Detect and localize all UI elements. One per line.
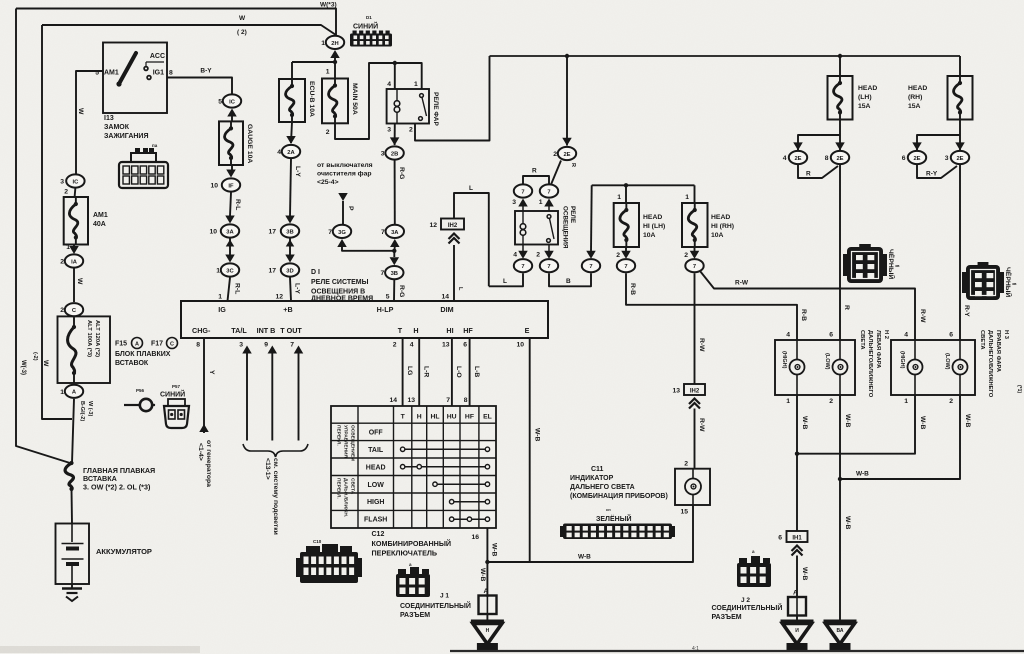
svg-text:1: 1 — [66, 244, 70, 251]
svg-text:B-Y: B-Y — [200, 68, 212, 75]
relay RELE OSVESHCHENIYA box — [515, 211, 558, 245]
svg-text:R-Y: R-Y — [963, 305, 970, 317]
svg-text:C11: C11 — [591, 466, 604, 473]
svg-text:W-B: W-B — [578, 554, 591, 561]
svg-text:2: 2 — [393, 342, 397, 349]
svg-text:HEAD: HEAD — [711, 214, 730, 221]
svg-text:H 3: H 3 — [1003, 330, 1009, 340]
svg-text:F17: F17 — [151, 341, 163, 348]
svg-text:13: 13 — [672, 388, 680, 395]
svg-text:P: P — [347, 206, 354, 211]
svg-text:СИНИЙ: СИНИЙ — [353, 22, 378, 31]
connector IA pin 2 — [65, 254, 83, 267]
svg-text:R-G: R-G — [398, 285, 405, 297]
svg-text:R-W: R-W — [919, 309, 926, 323]
svg-text:ЗАЖИГАНИЯ: ЗАЖИГАНИЯ — [104, 133, 149, 140]
svg-text:от генератора: от генератора — [205, 440, 212, 487]
wire L-Y to DRL relay pin 12 +B — [290, 278, 291, 302]
svg-text:2: 2 — [829, 398, 833, 405]
svg-text:W-B: W-B — [844, 516, 851, 530]
svg-text:INT B: INT B — [257, 326, 276, 335]
arrows into 2E pair LH — [793, 142, 803, 150]
wire relay pin3 to 2B — [394, 124, 396, 146]
svg-text:I13: I13 — [104, 115, 114, 122]
svg-text:12: 12 — [429, 222, 437, 229]
svg-text:ВСТАВОК: ВСТАВОК — [115, 360, 149, 367]
svg-text:IC: IC — [72, 179, 79, 185]
wire W-B from C11 pin 15 to ground bus — [487, 505, 693, 562]
svg-text:ПЕРЕКЛЮЧАТЕЛЬ: ПЕРЕКЛЮЧАТЕЛЬ — [372, 549, 438, 558]
svg-text:СИНИЙ: СИНИЙ — [160, 390, 185, 399]
svg-text:2E: 2E — [913, 156, 920, 162]
connector 7 (relay pin 4, L wire) — [514, 259, 532, 272]
ground right 2 — [824, 620, 857, 623]
arrow into 3D — [285, 255, 295, 263]
brace under wires — [243, 444, 308, 457]
svg-text:L-Y: L-Y — [294, 283, 301, 294]
svg-text:<25-4>: <25-4> — [317, 179, 339, 186]
svg-text:2E: 2E — [956, 156, 963, 162]
connector 3A pin 7 (H-LP) — [386, 225, 404, 238]
svg-text:9: 9 — [264, 342, 268, 349]
connector IH2 pin 12 — [441, 219, 464, 230]
svg-text:W-B: W-B — [491, 543, 498, 557]
svg-text:2: 2 — [684, 461, 688, 468]
svg-text:15A: 15A — [908, 103, 921, 110]
svg-text:ЗАМОК: ЗАМОК — [104, 124, 130, 131]
headlamp H2 left (LEVAYA FARA) — [775, 340, 855, 395]
svg-text:7: 7 — [589, 264, 592, 270]
svg-text:3B: 3B — [391, 271, 398, 277]
svg-text:6: 6 — [949, 332, 953, 339]
wire B relay output — [549, 273, 591, 286]
svg-text:7: 7 — [693, 264, 696, 270]
svg-text:БЛОК ПЛАВКИХ: БЛОК ПЛАВКИХ — [115, 351, 171, 358]
svg-text:LOW: LOW — [368, 482, 385, 489]
svg-text:сн: сн — [606, 507, 611, 512]
svg-text:2: 2 — [536, 252, 540, 259]
connector 2E pin 2 — [558, 147, 576, 160]
svg-text:(LH): (LH) — [858, 94, 872, 101]
svg-text:1: 1 — [218, 294, 222, 301]
DRL relay D1 main box — [181, 301, 548, 338]
connector 2E pin 6 — [908, 151, 926, 164]
svg-text:2: 2 — [326, 129, 330, 136]
svg-text:16: 16 — [471, 534, 479, 541]
wire 3A to 3C — [229, 239, 231, 256]
arrow into 2B — [390, 137, 400, 145]
svg-text:2: 2 — [64, 189, 68, 196]
svg-text:3A: 3A — [391, 230, 399, 236]
relay RELE FAR — [387, 89, 429, 124]
svg-text:1: 1 — [216, 268, 220, 275]
svg-text:4: 4 — [410, 342, 414, 349]
svg-text:(HIGH): (HIGH) — [781, 351, 787, 369]
arrow into 3C — [225, 255, 235, 263]
ground left — [486, 614, 488, 620]
svg-text:4: 4 — [786, 332, 790, 339]
svg-text:2B: 2B — [391, 151, 398, 157]
svg-text:7: 7 — [547, 264, 550, 270]
svg-text:Р56: Р56 — [136, 388, 145, 393]
connector 2B pin 3 — [385, 146, 403, 159]
svg-text:КОМБИНИРОВАННЫЙ: КОМБИНИРОВАННЫЙ — [372, 539, 452, 548]
svg-text:HEAD: HEAD — [643, 214, 662, 221]
svg-text:R: R — [843, 305, 850, 310]
svg-text:H 2: H 2 — [883, 330, 889, 339]
svg-text:3: 3 — [381, 151, 385, 158]
svg-text:IH2: IH2 — [690, 389, 700, 395]
wire R-G to DRL pin 5 H-LP — [393, 280, 395, 301]
svg-text:L: L — [469, 185, 473, 192]
svg-text:40A: 40A — [93, 221, 106, 228]
svg-text:1: 1 — [414, 81, 418, 88]
svg-text:зв: зв — [1012, 281, 1017, 286]
fuse ECU-B 10A — [279, 79, 305, 122]
svg-text:10A: 10A — [711, 232, 724, 239]
svg-text:3D: 3D — [286, 268, 293, 274]
svg-text:L-Y: L-Y — [294, 166, 301, 177]
svg-text:W-B: W-B — [919, 416, 926, 430]
svg-text:14: 14 — [389, 397, 397, 404]
svg-text:7: 7 — [521, 264, 524, 270]
svg-text:L-B: L-B — [473, 366, 480, 377]
svg-text:15A: 15A — [858, 103, 871, 110]
svg-text:HI: HI — [446, 326, 453, 335]
svg-text:W-B: W-B — [964, 414, 971, 428]
wire R-L to DRL relay pin 1 IG — [228, 278, 231, 302]
svg-text:2E: 2E — [563, 152, 570, 158]
svg-text:FLASH: FLASH — [364, 517, 387, 524]
connector 7 (relay pin 1) — [540, 184, 558, 197]
svg-text:3: 3 — [945, 155, 949, 162]
svg-text:АККУМУЛЯТОР: АККУМУЛЯТОР — [96, 547, 152, 556]
wire W-B from H3 pin2 — [840, 395, 960, 479]
svg-text:DIM: DIM — [440, 305, 453, 314]
svg-text:W: W — [77, 108, 84, 115]
svg-text:2E: 2E — [836, 156, 843, 162]
arrow into 3G from below — [337, 239, 347, 247]
svg-text:13: 13 — [442, 342, 450, 349]
svg-text:W-B: W-B — [801, 416, 808, 430]
svg-text:IG: IG — [218, 305, 226, 314]
black connector (CHYORNIY) left — [847, 247, 883, 283]
svg-text:СВЕТА: СВЕТА — [350, 478, 356, 495]
connector 3G pin 7 — [333, 225, 351, 238]
fuse HEAD HI (LH) 10A — [625, 185, 627, 203]
arrow into 2A — [286, 136, 296, 144]
svg-text:3G: 3G — [338, 230, 346, 236]
wire from rail down to 2E — [566, 56, 568, 146]
svg-text:(КОМБИНАЦИЯ ПРИБОРОВ): (КОМБИНАЦИЯ ПРИБОРОВ) — [570, 493, 668, 500]
connector 3B pin 17 — [281, 224, 299, 237]
svg-text:R-L: R-L — [234, 199, 241, 210]
svg-text:W-B: W-B — [856, 471, 869, 478]
connector 2H pin 1 — [326, 36, 344, 49]
svg-text:R: R — [570, 163, 576, 167]
svg-text:ДАЛЬНЕГО СВЕТА: ДАЛЬНЕГО СВЕТА — [570, 484, 635, 491]
svg-text:(LOW): (LOW) — [824, 353, 830, 370]
svg-text:H: H — [413, 326, 418, 335]
svg-text:( 2): ( 2) — [237, 29, 247, 36]
wire L relay coil return — [489, 273, 523, 286]
svg-text:R-B: R-B — [629, 283, 636, 295]
svg-text:17: 17 — [268, 229, 276, 236]
svg-text:HI (RH): HI (RH) — [711, 223, 734, 230]
svg-text:10: 10 — [516, 342, 524, 349]
svg-text:ПЕРЕКЛ.: ПЕРЕКЛ. — [336, 425, 342, 446]
svg-text:W(-3): W(-3) — [20, 360, 26, 375]
svg-text:A: A — [793, 590, 798, 597]
main fusible link GLAVNAYA PLAVKAYA VSTAVKA — [65, 463, 73, 489]
svg-text:7: 7 — [521, 189, 524, 195]
connector C pin 2 — [65, 303, 83, 316]
svg-text:AM1: AM1 — [93, 212, 108, 219]
svg-text:зв: зв — [895, 263, 900, 268]
svg-text:3. OW (*2) 2. OL (*3): 3. OW (*2) 2. OL (*3) — [83, 483, 151, 492]
svg-text:2A: 2A — [287, 150, 295, 156]
svg-text:И: И — [795, 628, 799, 634]
wire W-B from H3 pin1 — [797, 395, 915, 454]
connector 2E pin 8 — [831, 151, 849, 164]
wire L from IH2 to lighting relay coil — [454, 193, 489, 286]
svg-text:R-Y: R-Y — [926, 171, 938, 178]
svg-text:7: 7 — [328, 229, 332, 236]
svg-text:1: 1 — [321, 40, 325, 47]
svg-text:R-W: R-W — [698, 338, 705, 352]
svg-text:8: 8 — [169, 70, 173, 77]
svg-text:10: 10 — [210, 183, 218, 190]
diagonal wire 2E to relay pin 1 connector — [551, 161, 561, 185]
svg-text:(*1): (*1) — [1016, 385, 1022, 393]
svg-text:J 1: J 1 — [440, 593, 449, 600]
svg-text:РАЗЪЕМ: РАЗЪЕМ — [400, 612, 430, 619]
fuse GAUGE 10A — [219, 121, 243, 165]
svg-text:HIGH: HIGH — [367, 499, 385, 506]
fuse AM1 40A — [64, 197, 88, 245]
svg-text:СВЕТА: СВЕТА — [859, 330, 865, 350]
svg-text:1: 1 — [685, 194, 689, 201]
svg-text:РЕЛЕ СИСТЕМЫ: РЕЛЕ СИСТЕМЫ — [311, 279, 369, 286]
svg-text:3: 3 — [512, 199, 516, 206]
svg-text:СОЕДИНИТЕЛЬНЫЙ: СОЕДИНИТЕЛЬНЫЙ — [400, 601, 471, 610]
svg-text:ЛЕВАЯ ФАРА: ЛЕВАЯ ФАРА — [875, 330, 881, 369]
headlamp H3 right (PRAVAYA FARA) — [891, 340, 975, 395]
svg-text:IF: IF — [228, 183, 234, 189]
svg-text:CHG-: CHG- — [192, 326, 211, 335]
svg-text:от выключателя: от выключателя — [317, 162, 373, 169]
svg-text:10: 10 — [209, 229, 217, 236]
wire relay pin2 up to main rail — [415, 56, 490, 141]
wire W (2), second feed wire — [42, 25, 336, 35]
svg-text:УПРАВЛЕНИЯ: УПРАВЛЕНИЯ — [343, 425, 349, 458]
svg-text:17: 17 — [268, 268, 276, 275]
R merge of 2E variants — [798, 165, 838, 178]
svg-text:ДАЛЬН./БЛИЖН.: ДАЛЬН./БЛИЖН. — [343, 478, 349, 517]
svg-text:7: 7 — [624, 264, 627, 270]
svg-text:7: 7 — [446, 397, 450, 404]
svg-text:3: 3 — [239, 342, 243, 349]
svg-text:L-O: L-O — [455, 366, 462, 378]
svg-text:(-2): (-2) — [32, 352, 38, 361]
svg-text:R: R — [532, 168, 537, 175]
svg-text:HL: HL — [430, 414, 439, 421]
svg-text:AM1: AM1 — [104, 70, 119, 77]
svg-text:W-B: W-B — [844, 414, 851, 428]
connector 2E pin 4 — [789, 151, 807, 164]
svg-text:A: A — [484, 588, 489, 595]
rail feeding HEAD HI fuses — [592, 184, 695, 186]
svg-text:3: 3 — [60, 179, 64, 186]
svg-text:6: 6 — [829, 332, 833, 339]
svg-text:R-B: R-B — [800, 309, 807, 321]
svg-text:РЕЛЕ ФАР: РЕЛЕ ФАР — [432, 92, 439, 126]
ground right 1 — [796, 616, 798, 621]
svg-text:5: 5 — [218, 99, 222, 106]
svg-text:B-GI(-2): B-GI(-2) — [79, 401, 85, 421]
svg-text:очистителя фар: очистителя фар — [317, 171, 372, 178]
svg-text:(LOW): (LOW) — [944, 353, 950, 370]
connector 7 (relay pin 2, B wire) — [540, 259, 558, 272]
svg-text:3: 3 — [387, 127, 391, 134]
wire R-B to left high beam — [626, 273, 797, 340]
svg-text:4: 4 — [783, 155, 787, 162]
svg-text:6: 6 — [463, 342, 467, 349]
svg-text:8: 8 — [196, 342, 200, 349]
connector A pin 1 — [65, 385, 83, 398]
svg-text:D I: D I — [311, 269, 320, 276]
svg-text:OFF: OFF — [369, 429, 384, 436]
svg-text:1: 1 — [786, 398, 790, 405]
svg-text:3A: 3A — [226, 229, 234, 235]
wire R-W to right high beam — [700, 271, 915, 340]
svg-text:R-W: R-W — [698, 418, 705, 432]
svg-text:W-B: W-B — [479, 568, 486, 582]
svg-text:R-W: R-W — [735, 280, 749, 287]
R-Y merge of 2E variants — [917, 165, 957, 178]
svg-text:ИНДИКАТОР: ИНДИКАТОР — [570, 475, 614, 482]
svg-text:2: 2 — [949, 398, 953, 405]
svg-text:14: 14 — [441, 294, 449, 301]
svg-text:D1: D1 — [366, 15, 372, 20]
svg-text:13: 13 — [407, 397, 415, 404]
svg-text:7: 7 — [381, 270, 385, 277]
svg-text:2: 2 — [616, 252, 620, 259]
svg-text:1: 1 — [617, 194, 621, 201]
connector icon of ignition switch I13 — [119, 148, 168, 188]
svg-text:W (-3): W (-3) — [87, 401, 93, 416]
connector 3D pin 17 — [281, 263, 299, 276]
svg-text:ЗЕЛЁНЫЙ: ЗЕЛЁНЫЙ — [596, 514, 632, 523]
svg-text:H-LP: H-LP — [377, 305, 394, 314]
svg-text:ECU-B 10A: ECU-B 10A — [308, 81, 315, 117]
svg-text:ДАЛЬНЕГО/БЛИЖНЕГО: ДАЛЬНЕГО/БЛИЖНЕГО — [867, 330, 873, 398]
svg-text:IC: IC — [229, 99, 236, 105]
svg-text:4: 4 — [387, 81, 391, 88]
svg-text:B: B — [566, 278, 571, 285]
svg-text:ACC: ACC — [150, 53, 165, 60]
W-B ground bus junction — [485, 560, 489, 564]
svg-text:R: R — [806, 171, 811, 178]
svg-text:IH1: IH1 — [792, 536, 802, 542]
svg-text:С10: С10 — [313, 539, 322, 544]
svg-text:12: 12 — [275, 294, 283, 301]
arrow into 3A from below — [390, 239, 400, 247]
svg-text:2: 2 — [684, 252, 688, 259]
ignition switch I13 (ZAMOK ZAZHIGANIYA) — [103, 43, 167, 114]
svg-text:4: 4 — [904, 332, 908, 339]
svg-text:ОСВЕЩЕНИЯ В: ОСВЕЩЕНИЯ В — [311, 289, 365, 296]
wire R-W to high beam indicator via IH2 — [694, 273, 696, 384]
fuse HEAD HI (RH) 10A — [694, 185, 696, 203]
svg-text:J 2: J 2 — [741, 597, 750, 604]
svg-text:3C: 3C — [226, 268, 234, 274]
feed branch to ECU-B fuse — [292, 61, 335, 63]
wire down from A to main fusible link — [72, 399, 74, 463]
svg-text:ПРАВАЯ ФАРА: ПРАВАЯ ФАРА — [995, 330, 1001, 373]
svg-text:5: 5 — [386, 294, 390, 301]
svg-text:+B: +B — [283, 305, 292, 314]
svg-text:СВЕТА: СВЕТА — [979, 330, 985, 350]
svg-text:TA/L: TA/L — [231, 326, 247, 335]
svg-text:6: 6 — [778, 535, 782, 542]
svg-text:4: 4 — [513, 252, 517, 259]
svg-text:MAIN 50A: MAIN 50A — [351, 83, 358, 115]
connector IH1 pin 6 — [787, 531, 808, 542]
svg-text:IA: IA — [71, 259, 78, 265]
svg-text:Р57: Р57 — [172, 384, 181, 389]
svg-text:T OUT: T OUT — [280, 326, 302, 335]
connector 2A pin 4 — [282, 145, 300, 158]
svg-text:7: 7 — [381, 229, 385, 236]
wire from ignition AM1 pin 5 to IC — [76, 71, 103, 174]
svg-text:R-G: R-G — [398, 167, 405, 179]
svg-text:ВА: ВА — [837, 628, 844, 634]
svg-text:2H: 2H — [331, 41, 338, 47]
svg-text:GAUGE 10A: GAUGE 10A — [246, 124, 253, 163]
svg-text:па: па — [152, 143, 158, 148]
svg-text:1: 1 — [539, 199, 543, 206]
svg-text:1: 1 — [60, 389, 64, 396]
svg-text:HEAD: HEAD — [366, 464, 386, 471]
svg-text:<13-1>: <13-1> — [264, 458, 271, 480]
arrow into 7 below LH HI fuse — [625, 247, 627, 252]
arrow into 3A — [225, 216, 235, 224]
svg-text:HI (LH): HI (LH) — [643, 223, 665, 230]
fuse HEAD (LH) 15A — [839, 56, 841, 76]
svg-text:H: H — [417, 414, 422, 421]
svg-text:HF: HF — [465, 414, 474, 421]
svg-text:R-L: R-L — [234, 283, 241, 294]
arrow into IF — [226, 170, 236, 178]
connector 3A pin 10 — [221, 224, 239, 237]
svg-text:W(*3): W(*3) — [320, 2, 337, 9]
svg-text:8: 8 — [464, 397, 468, 404]
black connector (CHYORNIY) right — [966, 265, 1000, 300]
svg-text:IG1: IG1 — [153, 70, 164, 77]
battery ground — [71, 584, 73, 588]
svg-text:7: 7 — [547, 189, 550, 195]
wire MAIN 50A out to RELE FAR — [335, 63, 422, 139]
switch contact connections — [403, 448, 488, 450]
arrow into 2E — [562, 138, 572, 146]
wire DIM from DRL pin 14 up to IH2 — [453, 245, 455, 301]
arrow into 3B — [393, 251, 395, 257]
svg-text:Н: Н — [486, 628, 490, 634]
svg-text:<1-4>: <1-4> — [197, 443, 204, 461]
connector IH2 pin 13 — [684, 384, 705, 395]
svg-text:HEAD: HEAD — [908, 85, 927, 92]
